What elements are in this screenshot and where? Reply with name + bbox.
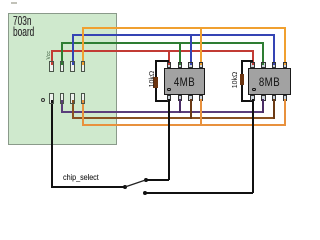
svg-text:Vcc: Vcc <box>46 51 52 60</box>
svg-text:10kΩ: 10kΩ <box>232 72 239 89</box>
svg-text:10kΩ: 10kΩ <box>149 71 156 88</box>
